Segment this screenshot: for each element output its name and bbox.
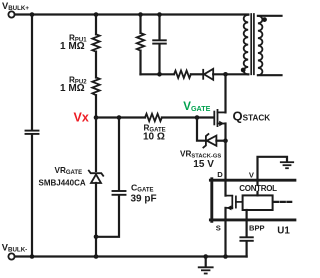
wire gate drop — [197, 118, 206, 141]
node CGATE top — [117, 115, 122, 120]
node VRGATE-CGATE join — [94, 235, 99, 240]
svg-text:39 pF: 39 pF — [131, 193, 157, 204]
wire drain vertical — [224, 74, 226, 112]
wire secondary top — [258, 15, 282, 17]
svg-text:15 V: 15 V — [193, 159, 214, 170]
node top-left — [30, 12, 35, 17]
svg-text:CONTROL: CONTROL — [239, 184, 277, 193]
transistor internal MOSFET — [226, 196, 243, 211]
wire CGATE top lead — [118, 118, 120, 191]
terminal VBULK- — [8, 253, 14, 259]
transistor QSTACK — [214, 110, 225, 126]
resistor RPU1 — [92, 34, 99, 51]
node Vx — [94, 115, 99, 120]
ground bottom rail — [199, 267, 213, 273]
transformer core — [251, 14, 254, 74]
svg-text:Vx: Vx — [74, 111, 89, 125]
diode clamp — [203, 69, 213, 80]
svg-text:SMBJ440CA: SMBJ440CA — [39, 179, 86, 188]
wire source vertical — [224, 124, 226, 141]
node R branch top — [138, 12, 143, 17]
svg-text:D: D — [217, 170, 223, 179]
wire snubber bottom join — [141, 73, 175, 75]
wire snubber R bottom — [139, 51, 141, 75]
secondary phase dot — [262, 17, 267, 22]
capacitor snubber — [153, 40, 166, 43]
primary phase dot — [241, 68, 246, 73]
wire bottom rail — [15, 255, 247, 257]
resistor snubber — [137, 33, 144, 51]
zener VRGATE — [89, 171, 103, 183]
wire V pin tick lower — [256, 192, 258, 196]
node C branch top — [157, 12, 162, 17]
svg-text:BPP: BPP — [249, 223, 265, 232]
wire left rail upper — [31, 15, 33, 130]
wire secondary bottom — [258, 74, 282, 76]
wire snubber C branch — [158, 15, 160, 40]
wire top rail — [15, 13, 249, 15]
wire V pin tick upper — [256, 182, 258, 185]
capacitor CGATE — [113, 191, 126, 195]
ground V pin — [281, 162, 293, 168]
svg-text:1 MΩ: 1 MΩ — [60, 41, 85, 52]
svg-text:U1: U1 — [277, 226, 290, 237]
node source-zener — [223, 138, 228, 143]
wire VRGATE top lead — [95, 118, 97, 171]
wire RGATE to gate — [162, 116, 214, 118]
node RPU1 top — [94, 12, 99, 17]
wire ground stub — [205, 257, 207, 267]
node VGATE — [195, 115, 200, 120]
wire BPP cap bottom — [246, 242, 248, 257]
wire left rail lower — [31, 135, 33, 256]
transformer primary winding — [244, 15, 249, 75]
node snubber join — [157, 72, 162, 77]
wire RPU1-RPU2 — [95, 52, 97, 78]
wire BPP pin — [246, 210, 248, 236]
svg-text:S: S — [216, 224, 221, 233]
wire to diode — [191, 73, 203, 75]
wire Vx to RGATE — [96, 116, 145, 118]
wire VRGATE bottom lead — [95, 183, 97, 257]
wire zener to source — [216, 140, 225, 142]
svg-text:1 MΩ: 1 MΩ — [60, 83, 85, 94]
transformer secondary winding — [258, 16, 263, 75]
wire snubber R branch — [139, 15, 141, 34]
wire D pin — [224, 141, 226, 196]
wire diode to primary — [213, 73, 248, 75]
wire snubber C bottom — [158, 44, 160, 74]
node S rail — [223, 254, 228, 259]
block U1 outline — [210, 179, 295, 222]
capacitor bulk — [26, 131, 39, 134]
wire CGATE bottom lead — [96, 196, 119, 237]
wire V pin to ground — [258, 157, 288, 180]
resistor RPU2 — [92, 78, 99, 96]
zener VRSTACK-GS — [203, 134, 216, 148]
wire RPU1 top lead — [95, 15, 97, 35]
resistor RGATE — [145, 114, 162, 121]
node drain junction — [223, 72, 228, 77]
wire S pin — [224, 208, 226, 257]
node zener bottom rail — [94, 254, 99, 259]
node bottom-left — [30, 254, 35, 259]
wire RPU2 to Vx — [95, 95, 97, 117]
dashed continuation — [275, 201, 292, 203]
resistor clamp series — [174, 71, 191, 78]
svg-text:10 Ω: 10 Ω — [143, 131, 165, 142]
node ground rail — [203, 254, 208, 259]
box CONTROL — [243, 195, 273, 210]
terminal VBULK+ — [8, 11, 14, 17]
capacitor BPP — [240, 237, 252, 241]
